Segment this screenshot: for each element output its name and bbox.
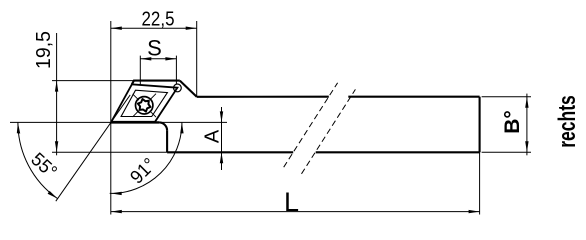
55 deg diagonal extension: [56, 95, 130, 201]
break line 2: [302, 89, 356, 173]
extension line head top (19,5 / 22,5): [52, 80, 138, 82]
arrow 55 bottom: [48, 191, 58, 199]
arrow A top: [220, 111, 223, 122]
svg-text:S: S: [147, 35, 162, 60]
arrow S left: [140, 57, 151, 60]
dimension line 19,5: [56, 33, 58, 155]
arc 55 deg: [18, 122, 58, 198]
shank right edge: [479, 97, 481, 153]
chamfer head to shank: [180, 81, 197, 97]
insert inner rhombus: [121, 90, 167, 116]
break line 1: [284, 83, 338, 167]
svg-text:55°: 55°: [27, 149, 61, 183]
dimension line B: [526, 94, 528, 156]
corner radius circle: [174, 84, 182, 92]
svg-text:22,5: 22,5: [142, 8, 175, 30]
shank right edge extension down (L): [479, 152, 481, 214]
extension vertical at head corner x=196.7: [196, 21, 198, 97]
svg-text:19,5: 19,5: [33, 31, 55, 69]
arrow S right: [165, 57, 176, 60]
arrow 22,5 left: [111, 27, 122, 30]
arrow 22,5 right: [186, 27, 197, 30]
B extension lines: [482, 97, 531, 153]
arrow L right: [469, 210, 480, 213]
cutting edge bottom line: [111, 121, 159, 123]
screw torx star: [138, 99, 151, 112]
arrow B top: [525, 97, 528, 108]
arrow 19,5 bottom: [55, 141, 58, 152]
svg-text:B°: B°: [501, 110, 524, 134]
extension line shank bottom left (19,5): [52, 151, 167, 153]
svg-text:rechts: rechts: [554, 95, 581, 148]
arrow 19,5 top: [55, 81, 58, 92]
arrow 55 left: [17, 122, 20, 133]
arrow 91 top: [180, 122, 183, 133]
shank bottom edge: [167, 151, 480, 153]
arrow A bottom: [220, 152, 223, 163]
extension horizontal for 55 deg: [10, 121, 111, 123]
cutting edge thin extension right (A / 91): [159, 121, 227, 123]
arrow L left: [111, 210, 122, 213]
insert outer rhombus: [111, 84, 177, 122]
screw outer circle: [136, 97, 153, 114]
arrow B bottom: [525, 141, 528, 152]
dimension line 22,5: [111, 27, 197, 29]
arrow 91 bottom: [111, 192, 122, 195]
shank top edge: [197, 96, 480, 98]
dimension line A: [221, 107, 223, 170]
dimension line L: [111, 211, 480, 213]
dimension line S: [140, 58, 176, 60]
svg-text:L: L: [284, 187, 299, 217]
arc 91 deg: [110, 122, 182, 193]
screw cross ticks: [133, 94, 156, 117]
extension vertical at tool tip x=110.8: [110, 21, 112, 215]
step vertical below head: [166, 130, 168, 152]
head top edge: [132, 81, 180, 85]
svg-text:A: A: [202, 129, 224, 143]
S extension lines: [140, 56, 176, 86]
svg-text:91°: 91°: [127, 154, 161, 188]
fillet at step: [159, 122, 167, 130]
